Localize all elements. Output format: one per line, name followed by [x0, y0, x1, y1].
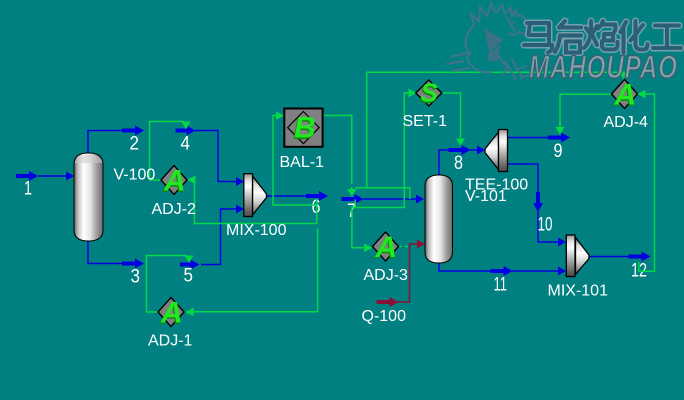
svg-text:Q-100: Q-100: [362, 308, 407, 325]
svg-text:S: S: [421, 78, 439, 108]
mixer MIX-101: [566, 235, 589, 277]
svg-text:9: 9: [554, 141, 563, 162]
svg-text:ADJ-1: ADJ-1: [148, 333, 193, 350]
wire stream 7 to V-101 feed inlet: [363, 198, 416, 200]
wire MIX-100 outlet to stream 6: [266, 195, 306, 197]
wire green ADJ-1 monitor connection from stream 6: [193, 228, 318, 312]
wire stream 10 to MIX-101 top inlet: [538, 211, 558, 242]
mixer MIX-100: [244, 174, 267, 217]
stream 8 thick arrow: [449, 145, 471, 155]
svg-text:A: A: [375, 231, 398, 264]
wire Q-100 energy line into V-101: [396, 244, 417, 302]
node green down arrowhead onto stream 7: [347, 189, 356, 197]
stream 9 thick arrow: [548, 133, 570, 143]
node green down arrowhead onto stream 9: [556, 127, 565, 135]
node green right arrowhead into BAL-1: [276, 112, 285, 120]
svg-text:MAHOUPAO: MAHOUPAO: [529, 50, 678, 86]
node green left arrowhead into ADJ-1: [185, 308, 194, 316]
wire green ADJ-1 adjust connection onto stream 5: [147, 256, 188, 313]
node green down arrowhead into ADJ-4 top: [620, 72, 629, 80]
adjust ADJ-2: [161, 165, 187, 200]
wire V-100 bottom outlet to stream 3: [88, 240, 122, 264]
wire green dashed tail of BAL-1 connection: [351, 180, 353, 189]
wire green BAL-1 right connection to stream 7: [323, 116, 352, 181]
svg-text:BAL-1: BAL-1: [280, 154, 325, 171]
node green left arrowhead into ADJ-4: [637, 90, 646, 98]
node stream 11 arrowhead into MIX-101: [558, 267, 566, 276]
wire V-100 top outlet to stream 2: [88, 131, 122, 155]
node green right arrowhead into SET-1: [409, 89, 418, 97]
svg-text:6: 6: [312, 197, 321, 218]
stream 5 thick arrow: [180, 260, 200, 270]
node green right arrowhead into ADJ-3: [364, 244, 373, 252]
wire green ADJ-3 monitor connection from stream 7 box: [352, 208, 364, 248]
watermark horse neck shadow wedges: [484, 21, 515, 62]
svg-text:V-100: V-100: [114, 167, 156, 184]
watermark chinese characters halo: [524, 21, 681, 53]
wire stream 1 feed line: [38, 175, 68, 177]
wire stream 5 to MIX-100 bottom inlet: [201, 209, 237, 265]
wire TEE-100 bottom outlet to stream 10 riser: [507, 164, 538, 193]
wire TEE-100 top outlet to stream 9: [507, 137, 548, 139]
node stream 8 arrowhead into TEE-100: [477, 146, 485, 155]
node stream 7 arrowhead into V-101: [416, 195, 424, 204]
node green down arrowhead onto stream 8: [456, 139, 465, 147]
node green left arrowhead into ADJ-2: [187, 176, 196, 185]
tee TEE-100: [485, 130, 508, 172]
wire stream 8 into TEE-100: [470, 149, 477, 151]
set SET-1: [416, 78, 442, 110]
wire green ADJ-4 top long connection from stream 7: [355, 72, 624, 199]
wire green ADJ-2 adjust connection onto stream 4: [150, 122, 185, 181]
adjust ADJ-1: [158, 297, 184, 332]
stream 4 thick arrow: [176, 126, 196, 136]
svg-text:B: B: [294, 112, 316, 145]
svg-text:8: 8: [454, 153, 463, 174]
watermark chinese characters ink: [524, 21, 681, 53]
svg-text:TEE-100: TEE-100: [465, 177, 528, 194]
watermark logo horse: [446, 3, 530, 80]
wire stream 4 to MIX-100 top inlet: [195, 131, 237, 182]
node stream 10 arrowhead into MIX-101: [558, 238, 566, 247]
svg-text:5: 5: [184, 266, 194, 287]
node Q-100 arrowhead into V-101: [417, 240, 425, 249]
svg-text:ADJ-3: ADJ-3: [364, 267, 409, 284]
node stream 4 arrowhead into MIX-100: [236, 177, 244, 186]
balance BAL-1: [284, 109, 322, 147]
wire stream 11 to MIX-101 bottom inlet: [512, 270, 558, 272]
adjust ADJ-3: [373, 231, 399, 266]
stream 1 thick arrow: [16, 171, 38, 181]
svg-text:4: 4: [181, 134, 191, 155]
Q-100 energy stream thick arrow: [377, 297, 399, 307]
wire V-101 bottom outlet to stream 11: [439, 262, 491, 271]
node green down arrowhead onto stream 5: [185, 256, 194, 264]
vessel V-101: [425, 175, 453, 263]
wire V-101 top outlet to stream 8: [439, 150, 449, 176]
node stream 1 arrowhead into V-100: [66, 172, 74, 181]
wire green dashed ADJ-3 right connection to Q-100: [399, 246, 410, 248]
svg-text:ADJ-2: ADJ-2: [152, 201, 197, 218]
stream 10 thick arrow pointing down: [533, 192, 543, 212]
stream 11 thick arrow: [491, 266, 513, 276]
stream 7 thick arrow: [342, 194, 364, 204]
svg-text:A: A: [160, 297, 183, 330]
wire green SET-1 target connection onto stream 8: [441, 93, 460, 139]
svg-text:MIX-100: MIX-100: [226, 222, 287, 239]
node green down arrowhead onto stream 4: [182, 122, 191, 130]
svg-text:3: 3: [131, 267, 141, 288]
node stream 5 arrowhead into MIX-100: [236, 205, 244, 214]
svg-text:MIX-101: MIX-101: [548, 283, 609, 300]
svg-text:11: 11: [494, 275, 508, 296]
wire green ADJ-4 right connection from stream 12: [639, 94, 655, 271]
svg-text:SET-1: SET-1: [403, 113, 448, 130]
stream 2 thick arrow: [122, 126, 144, 136]
adjust ADJ-4: [612, 79, 638, 114]
wire MIX-101 outlet to stream 12: [589, 256, 629, 258]
vessel V-100: [74, 153, 103, 241]
svg-text:A: A: [163, 165, 186, 198]
wire green ADJ-4 left connection onto stream 9: [560, 94, 613, 127]
stream 3 thick arrow: [122, 259, 144, 269]
svg-text:10: 10: [538, 215, 553, 236]
wire green BAL-1 left connection from stream 6: [273, 116, 317, 206]
svg-text:1: 1: [24, 179, 32, 200]
svg-text:ADJ-4: ADJ-4: [604, 114, 649, 131]
stream 12 thick arrow: [629, 252, 651, 262]
wire green SET-1 source connection from stream 7: [355, 93, 408, 208]
stream 6 thick arrow: [306, 191, 328, 201]
wire green ADJ-2 monitor connection from stream 6: [195, 180, 317, 224]
svg-text:2: 2: [130, 134, 140, 155]
